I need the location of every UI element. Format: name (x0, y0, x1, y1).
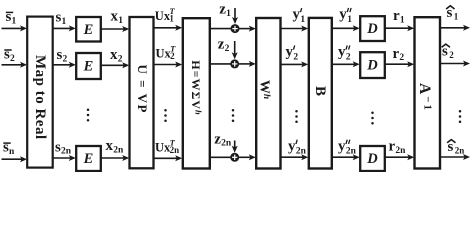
svg-text:D: D (366, 58, 378, 74)
svg-text:D: D (366, 21, 378, 37)
label s1 (56, 10, 67, 27)
wire: s2n to E (53, 155, 76, 161)
wire: r2n to A (385, 154, 414, 160)
label Ux1T (155, 6, 176, 24)
svg-text:y: y (339, 7, 347, 23)
wire: y''2n to D (332, 154, 360, 160)
wire: y'2n to B (281, 154, 309, 160)
block: encoder E (row 3) (76, 146, 101, 171)
ellipsis dots: output column (459, 110, 462, 123)
svg-text:D: D (366, 151, 378, 167)
svg-text:2n: 2n (296, 147, 307, 157)
label s&#772;n (3, 140, 15, 157)
wire: Ux2n to H (154, 155, 183, 161)
label r2n (389, 139, 407, 156)
block: channel H=W&#931;V&#661; (183, 18, 210, 168)
svg-text:B: B (312, 86, 328, 96)
svg-text:E: E (83, 59, 94, 75)
wire: s1 to E (53, 25, 76, 31)
wire: H to adder 3 (210, 156, 231, 158)
label x2n (106, 138, 124, 155)
wire: x1 to U (101, 26, 129, 32)
svg-text:2: 2 (346, 52, 351, 62)
label y'2n (288, 138, 307, 156)
label z2n (214, 131, 232, 148)
wire: input arrow s&#772;2 (2, 62, 28, 68)
wire: y''1 to D (332, 25, 360, 31)
svg-text:2: 2 (293, 52, 298, 62)
svg-text:H=WΣVh: H=WΣVh (189, 60, 203, 115)
svg-text:y: y (288, 138, 296, 154)
adder: sum node row 2 (230, 59, 239, 68)
wire: input arrow s&#772;1 (2, 25, 28, 31)
svg-text:y: y (338, 44, 346, 60)
label s2n (55, 139, 72, 156)
label Ux2nT (155, 138, 179, 156)
block diagram: MIMO transceiver chain (0, 0, 474, 172)
label x1 (111, 9, 124, 26)
svg-text:y: y (293, 7, 301, 23)
label s&#772;2 (4, 47, 15, 64)
svg-text:2: 2 (449, 50, 454, 60)
svg-text:2n: 2n (455, 145, 465, 155)
label x2 (110, 47, 123, 64)
wire: output s&#770;2n (440, 154, 470, 160)
ellipsis dots: E column (87, 109, 90, 122)
block: encoder E (row 2) (76, 53, 101, 79)
svg-text:1: 1 (347, 15, 352, 25)
block: decoder D (row 2) (360, 52, 385, 78)
svg-text:2: 2 (170, 51, 175, 61)
wire: x2 to U (101, 62, 129, 68)
label s&#770;1 (446, 5, 459, 21)
block: receive filter W&#661; (256, 18, 280, 169)
label s2 (57, 47, 68, 64)
ellipsis dots: adder column (232, 109, 235, 122)
block: encoder E (row 1) (76, 17, 101, 42)
label y'1 (293, 7, 306, 25)
wire: y'1 to B (281, 26, 309, 32)
wire: Ux1 to H (154, 25, 183, 31)
svg-text:E: E (83, 151, 94, 167)
label s&#770;2 (442, 44, 455, 60)
wire: noise z1 arrow (232, 8, 238, 24)
block: B (309, 18, 332, 169)
block: precoder U = VP (130, 17, 154, 168)
block: inverse mapping A&#8315;&#185; (415, 17, 441, 168)
wire: output s&#770;2 (440, 61, 470, 67)
wire: noise z2n arrow (232, 141, 238, 153)
wire: adder 3 to W (239, 154, 256, 160)
wire: adder 2 to W (239, 61, 256, 67)
svg-text:Map to Real: Map to Real (32, 55, 48, 140)
block: decoder D (row 1) (360, 16, 385, 41)
block: Map to Real (27, 17, 53, 168)
svg-text:1: 1 (169, 14, 174, 24)
wire: y''2 to D (332, 61, 360, 67)
label s&#772;1 (6, 9, 17, 26)
wire: x2n to U (101, 155, 129, 161)
label z2 (218, 37, 230, 54)
wire: output s&#770;1 (440, 25, 470, 31)
label Ux2T (156, 43, 177, 61)
wire: Ux2 to H (154, 62, 183, 68)
adder: sum node row 3 (230, 153, 239, 162)
svg-text:1: 1 (454, 12, 459, 22)
wire: s2 to E (53, 62, 76, 68)
label s&#770;2n (447, 139, 464, 155)
wire: r2 to A (385, 61, 414, 67)
wire: r1 to A (385, 25, 414, 31)
svg-text:1: 1 (300, 15, 305, 25)
ellipsis dots: D column (371, 112, 374, 125)
label z1 (219, 1, 231, 18)
block: decoder D (row 3) (360, 146, 385, 171)
svg-text:y: y (338, 138, 346, 154)
ellipsis dots: y-prime column (295, 110, 298, 123)
svg-text:U = VP: U = VP (135, 65, 150, 114)
label y'2 (286, 44, 299, 62)
wire: H to adder 2 (210, 63, 231, 65)
wire: adder 1 to W (239, 26, 256, 32)
label r2 (393, 46, 405, 63)
svg-text:E: E (83, 22, 94, 38)
svg-text:y: y (286, 44, 294, 60)
svg-text:2n: 2n (346, 147, 357, 157)
svg-text:2n: 2n (170, 145, 180, 155)
wire: H to adder 1 (210, 28, 231, 30)
label y''2 (338, 44, 351, 62)
wire: noise z2 arrow (232, 41, 238, 59)
label y''1 (339, 7, 352, 25)
wire: input arrow s&#772;n (2, 156, 28, 162)
ellipsis dots: Ux column (164, 109, 167, 122)
adder: sum node row 1 (231, 24, 240, 33)
label r1 (393, 8, 405, 25)
label y''2n (338, 138, 357, 156)
wire: y'2 to B (281, 61, 309, 67)
